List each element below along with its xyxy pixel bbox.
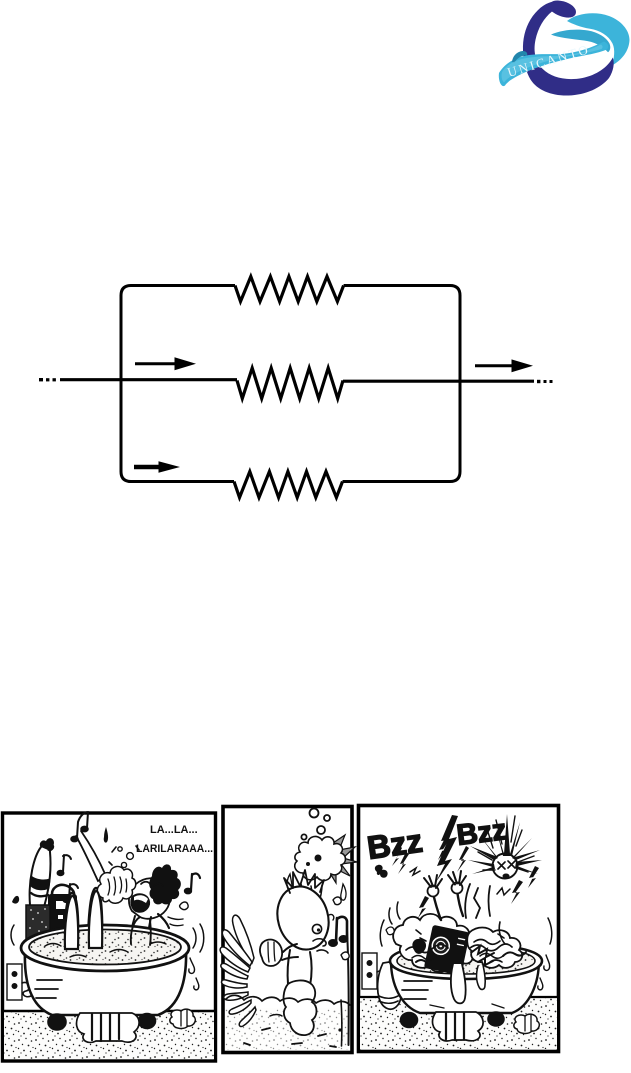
panel 3 foam over rim: [451, 964, 466, 1003]
panel 1 pedestal puddle: [77, 1013, 140, 1042]
panel 1 bathtub body: [25, 950, 186, 1015]
panel 1 leg stripes: [31, 876, 50, 890]
panel 2 drops right: [341, 952, 349, 960]
panel 3 hair spike burst: [468, 814, 542, 874]
panel 1 long drop top left: [104, 827, 108, 843]
panel 1 music note 1: [77, 812, 88, 838]
current arrow I3 (bottom left): [134, 465, 160, 470]
panel 3 spark small left: [392, 845, 402, 866]
panel 3 lightning bolts around figure: [457, 846, 469, 872]
panel 3 claw foot right: [488, 1012, 504, 1026]
logo cyan ring top arc and right side: [567, 13, 630, 65]
panel 2 star splash gray points: [328, 835, 357, 883]
panel 1 knees above water repaint: [65, 891, 102, 949]
panel 2 scrub hands: [260, 940, 282, 966]
panel 3 splash chaos in tub: [393, 914, 475, 972]
panel 2 tub edge right: [347, 930, 349, 1045]
panel 3 lightning bolt center: [436, 815, 458, 882]
svg-text:Bzz: Bzz: [455, 814, 508, 852]
logo band tip curl: [512, 51, 527, 63]
panel 2 hair wet strands: [284, 870, 324, 893]
panel 3 tub body: [391, 960, 539, 1013]
panel 1 claw foot right: [139, 1014, 156, 1029]
wire: parallel loop left side with rounded corners: [121, 286, 235, 482]
panel 2 bottom marks: [244, 1028, 336, 1047]
panel 1 wall outlet: [7, 964, 22, 1000]
resistor R1 (top branch): [235, 277, 344, 302]
panel 1 torso in water: [129, 916, 151, 946]
panel 1 singer eyes closed: [141, 882, 150, 884]
panel 3 electrocuted head: [493, 854, 518, 879]
svg-text:LARILARAAA...: LARILARAAA...: [136, 843, 213, 855]
panel 1 singer head: [129, 878, 170, 919]
panel 3 splash chaos right: [467, 928, 522, 968]
panel 3 right arm raised with claw hand: [457, 890, 463, 916]
panel 3 pedestal: [433, 1012, 484, 1041]
panel 3 claw foot left: [401, 1013, 418, 1028]
resistor R2 (middle branch): [237, 368, 343, 399]
logo cyan inner hook swoosh: [551, 30, 610, 53]
svg-text:LA...LA...: LA...LA...: [150, 824, 198, 836]
panel 1 bubbles near suds: [118, 847, 122, 851]
logo cyan band lower-left: [499, 42, 608, 87]
panel 1 leg raised: [30, 845, 51, 907]
panel 1 tub rim outer: [21, 925, 189, 971]
panel 2 bubbles: [310, 809, 319, 818]
panel 1 claw foot left: [48, 1014, 66, 1030]
panel 3 dark chaos in tub: [412, 939, 426, 954]
panel 3 left arm raised with claw hand: [433, 893, 441, 920]
panel 3 radio falling in tub: [424, 925, 470, 976]
logo navy head underside shade: [552, 8, 573, 17]
panel 1 singer sponge suds and hand: [97, 866, 135, 903]
current arrow I2 (middle left): [135, 362, 176, 365]
panel 1 torso above water repaint: [131, 917, 151, 945]
panel 1 water drips right: [189, 958, 199, 990]
panel 1 tub speed lines: [35, 980, 62, 998]
panel 2 water fan left: [233, 915, 254, 963]
panel 2 star splash white blobs: [295, 836, 346, 880]
panel 1 knees in tub: [64, 893, 78, 950]
wire: parallel loop right side with rounded corners: [343, 286, 461, 482]
panel 2 head bent over: [270, 880, 336, 955]
panel 3 tub scribbles: [406, 944, 512, 953]
panel 2 arms: [282, 944, 298, 960]
panel 1 water wave lines: [45, 942, 166, 957]
wire: middle input lead: [60, 378, 237, 381]
panel 3 splash drops left of tub: [389, 902, 400, 924]
node: dotted continuation right: [537, 380, 540, 383]
panel 3 drips right of tub: [538, 955, 550, 990]
panel 1 music note 2: [63, 855, 71, 872]
panel 2 body and knee: [288, 950, 312, 986]
panel 2 sand bottom: [226, 1008, 350, 1050]
panel 1 singer raised arm with sponge: [76, 831, 106, 881]
panel 1 music note 3: [69, 884, 78, 899]
panel 1 drop left: [12, 896, 19, 904]
panel 3 wall outlet: [362, 953, 377, 989]
panel 1 music note 4: [191, 874, 200, 890]
panel 1 singer mouth open: [131, 894, 149, 912]
panel 1 drop and arcs right of head: [180, 902, 189, 910]
logo navy G-swirl: head, arm and bottom crescent (one stroke): [523, 0, 614, 95]
panel 2 splash drips under star: [301, 884, 322, 900]
panel 3 floor: [360, 997, 557, 1049]
panel 1 radio: [52, 885, 74, 896]
svg-text:Bzz: Bzz: [365, 823, 425, 866]
logo band highlight: [502, 45, 603, 83]
wire: middle output lead: [343, 380, 534, 383]
panel 3 sponge right: [514, 1014, 539, 1033]
panel 2 face features: [312, 924, 321, 933]
panel 1 singer hair: [149, 864, 181, 904]
panel 3 towel left: [378, 962, 402, 1009]
node: dotted continuation left: [39, 378, 43, 381]
panel 1 radio speaker: [26, 905, 50, 942]
panel 1 tub rim inner + water: [29, 930, 181, 965]
comic panel 1 frame: [3, 813, 216, 1061]
panel 1 floor: [4, 1011, 214, 1059]
panel 3 small doodle: [375, 865, 388, 878]
panel 3 spark zigzag lines: [410, 868, 510, 895]
current arrow I total (right output): [475, 364, 513, 367]
panel 1 singer right arm: [158, 914, 169, 928]
comic panel 3 frame: [359, 806, 559, 1052]
panel 2 ear: [329, 914, 334, 920]
panel 2 music note: [336, 917, 347, 942]
comic panel 2 frame: [223, 807, 352, 1053]
panel 3 motion arcs: [380, 918, 551, 946]
panel 3 figure body in tub: [465, 884, 490, 918]
panel 1 motion arcs: [193, 924, 204, 952]
panel 1 pedestal stripes: [92, 1014, 119, 1041]
resistor R3 (bottom branch): [234, 472, 343, 498]
panel 3 tub rim: [390, 944, 542, 979]
panel 1 sponge on floor: [170, 1009, 195, 1028]
panel 2 water line: [226, 995, 350, 1005]
